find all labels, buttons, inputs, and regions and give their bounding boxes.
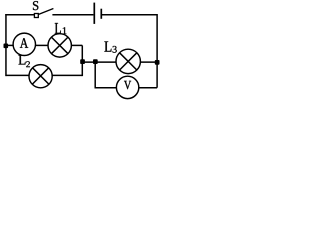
label L1 - L — [55, 23, 61, 33]
battery short plate — [100, 9, 102, 19]
wire L1 to joiner corner — [71, 44, 82, 46]
lamp L3 circle — [116, 49, 140, 73]
label L2 - subscript 2 — [26, 61, 30, 67]
label L3 - L — [104, 41, 111, 51]
lamp L2 circle — [29, 65, 52, 88]
switch S lever — [39, 9, 54, 15]
label S — [33, 1, 38, 10]
wire ammeter to lamp L1 — [36, 44, 49, 46]
junction dot on left wire — [4, 44, 9, 49]
wire L2 to joiner — [52, 74, 82, 76]
junction dot node C — [155, 60, 160, 65]
lamp L1 cross — [51, 37, 68, 54]
voltmeter branch vertical wire — [94, 62, 96, 88]
ammeter U1 circle — [13, 33, 35, 55]
wire L3 to right wire — [140, 61, 157, 63]
label L2 - L — [19, 55, 26, 64]
lamp L2 cross — [32, 68, 48, 84]
wire voltmeter to right wire — [139, 87, 157, 89]
lamp L3 cross — [120, 53, 137, 70]
wire junction to ammeter — [6, 44, 13, 46]
voltmeter U2 circle — [116, 76, 138, 98]
wire middle node to lamp L3 — [82, 61, 116, 63]
junction dot node B — [93, 59, 98, 64]
battery long plate — [93, 3, 95, 24]
label L3 - subscript 3 — [113, 46, 117, 53]
letter V in voltmeter — [124, 81, 131, 89]
wire top-left to switch — [5, 14, 34, 16]
joiner vertical wire — [81, 45, 83, 76]
wire switch to battery — [52, 14, 93, 16]
letter A in ammeter — [20, 38, 28, 48]
switch S terminal — [34, 14, 38, 18]
wire right side vertical — [156, 14, 158, 88]
wire to voltmeter — [95, 87, 117, 89]
wire bottom-left to lamp L2 — [6, 74, 30, 76]
wire battery to top-right corner — [102, 14, 157, 16]
wire left side vertical — [5, 14, 7, 76]
junction dot node A — [80, 59, 85, 64]
lamp L1 circle — [48, 34, 71, 57]
label L1 - subscript 1 — [63, 27, 67, 34]
